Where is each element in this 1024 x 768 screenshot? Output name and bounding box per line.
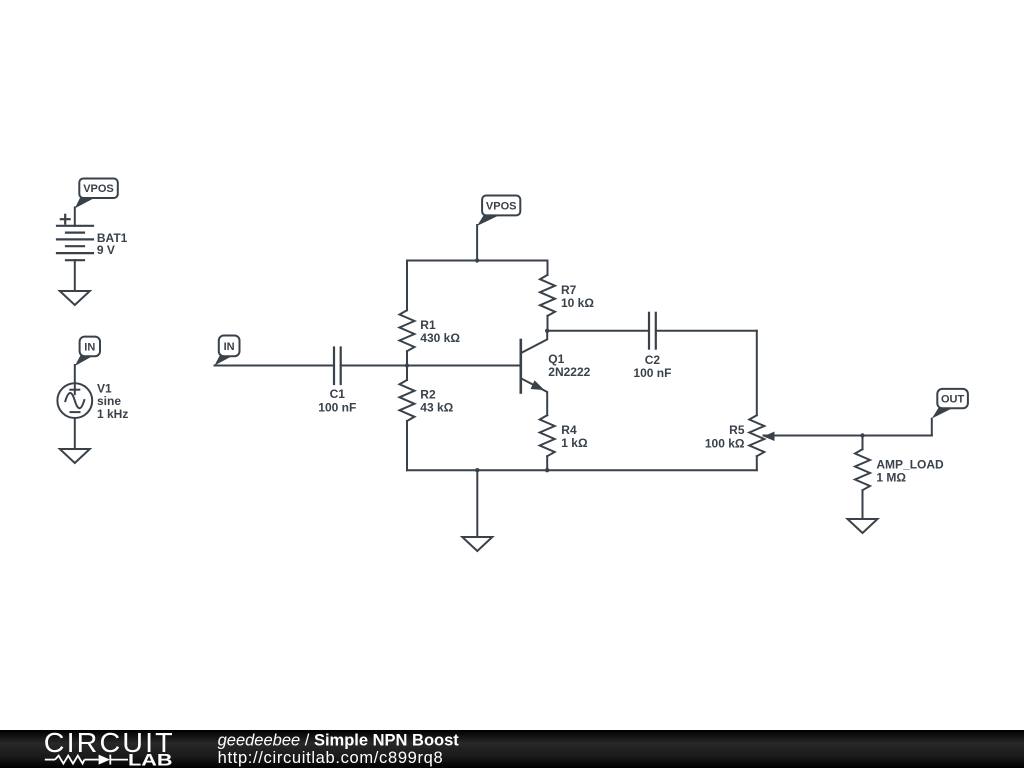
flag VPOS (battery) — [75, 179, 118, 209]
footer bar — [0, 730, 1024, 768]
node (VPOS rail) — [475, 258, 479, 262]
wire — [341, 365, 407, 367]
svg-text:LAB: LAB — [128, 750, 173, 768]
resistor R7 — [540, 261, 555, 331]
wire — [74, 207, 76, 225]
svg-text:VPOS: VPOS — [486, 201, 517, 213]
wire — [74, 260, 76, 291]
svg-text:AMP_LOAD: AMP_LOAD — [876, 458, 944, 472]
svg-text:C1: C1 — [330, 387, 346, 401]
svg-text:R7: R7 — [561, 283, 577, 297]
svg-text:http://circuitlab.com/c899rq8: http://circuitlab.com/c899rq8 — [218, 749, 444, 767]
svg-text:43 kΩ: 43 kΩ — [420, 401, 453, 415]
wire — [476, 225, 478, 261]
wire (bottom rail) — [407, 469, 757, 471]
svg-text:R1: R1 — [420, 318, 436, 332]
svg-text:1 kΩ: 1 kΩ — [561, 436, 588, 450]
wire — [407, 365, 521, 367]
logo wire with resistor and diode — [45, 755, 128, 765]
svg-text:R4: R4 — [561, 423, 577, 437]
svg-text:1 kHz: 1 kHz — [97, 407, 128, 421]
resistor R4 — [540, 415, 555, 470]
svg-text:geedeebee / Simple NPN Boost: geedeebee / Simple NPN Boost — [218, 732, 460, 750]
svg-text:1 MΩ: 1 MΩ — [876, 471, 906, 485]
svg-text:9 V: 9 V — [97, 243, 115, 257]
ground (load) — [848, 519, 878, 533]
wire — [74, 365, 76, 383]
capacitor C2 — [649, 313, 656, 349]
svg-text:R2: R2 — [420, 388, 436, 402]
wire — [656, 330, 757, 332]
svg-text:Q1: Q1 — [548, 352, 564, 366]
wire — [931, 419, 933, 436]
svg-text:100 kΩ: 100 kΩ — [705, 437, 745, 451]
wire — [215, 365, 335, 367]
resistor R2 — [400, 366, 415, 471]
node (ground rail) — [475, 468, 479, 472]
battery BAT1 — [57, 215, 93, 260]
svg-text:VPOS: VPOS — [83, 183, 114, 195]
wire (top rail) — [407, 260, 548, 262]
svg-text:IN: IN — [224, 341, 235, 353]
resistor AMP_LOAD — [855, 436, 870, 520]
svg-text:100 nF: 100 nF — [318, 400, 356, 414]
ground (battery) — [60, 291, 90, 305]
wire — [74, 418, 76, 449]
svg-text:430 kΩ: 430 kΩ — [420, 331, 460, 345]
svg-text:2N2222: 2N2222 — [548, 365, 590, 379]
svg-text:C2: C2 — [645, 353, 661, 367]
ground (source) — [60, 449, 90, 463]
svg-text:OUT: OUT — [941, 394, 965, 406]
node (output) — [860, 433, 864, 437]
wire (collector to C2) — [547, 330, 649, 332]
wire — [756, 331, 758, 415]
flag VPOS (rail) — [477, 196, 520, 226]
wire (wiper to OUT) — [764, 435, 932, 437]
wire (ground stub) — [476, 470, 478, 537]
flag IN (source) — [75, 337, 100, 366]
source V1 — [57, 383, 92, 418]
node (base junction) — [405, 363, 409, 367]
flag OUT — [932, 389, 968, 419]
transistor Q1 — [521, 331, 547, 415]
flag IN (circuit input) — [215, 336, 240, 366]
capacitor C1 — [334, 348, 341, 385]
svg-text:10 kΩ: 10 kΩ — [561, 296, 594, 310]
node (collector) — [545, 329, 549, 333]
node (emitter rail) — [545, 468, 549, 472]
ground (main) — [462, 537, 492, 551]
svg-text:R5: R5 — [729, 423, 745, 437]
svg-text:100 nF: 100 nF — [633, 366, 671, 380]
potentiometer R5 — [749, 415, 774, 470]
svg-text:IN: IN — [84, 342, 95, 354]
resistor R1 — [400, 261, 415, 366]
